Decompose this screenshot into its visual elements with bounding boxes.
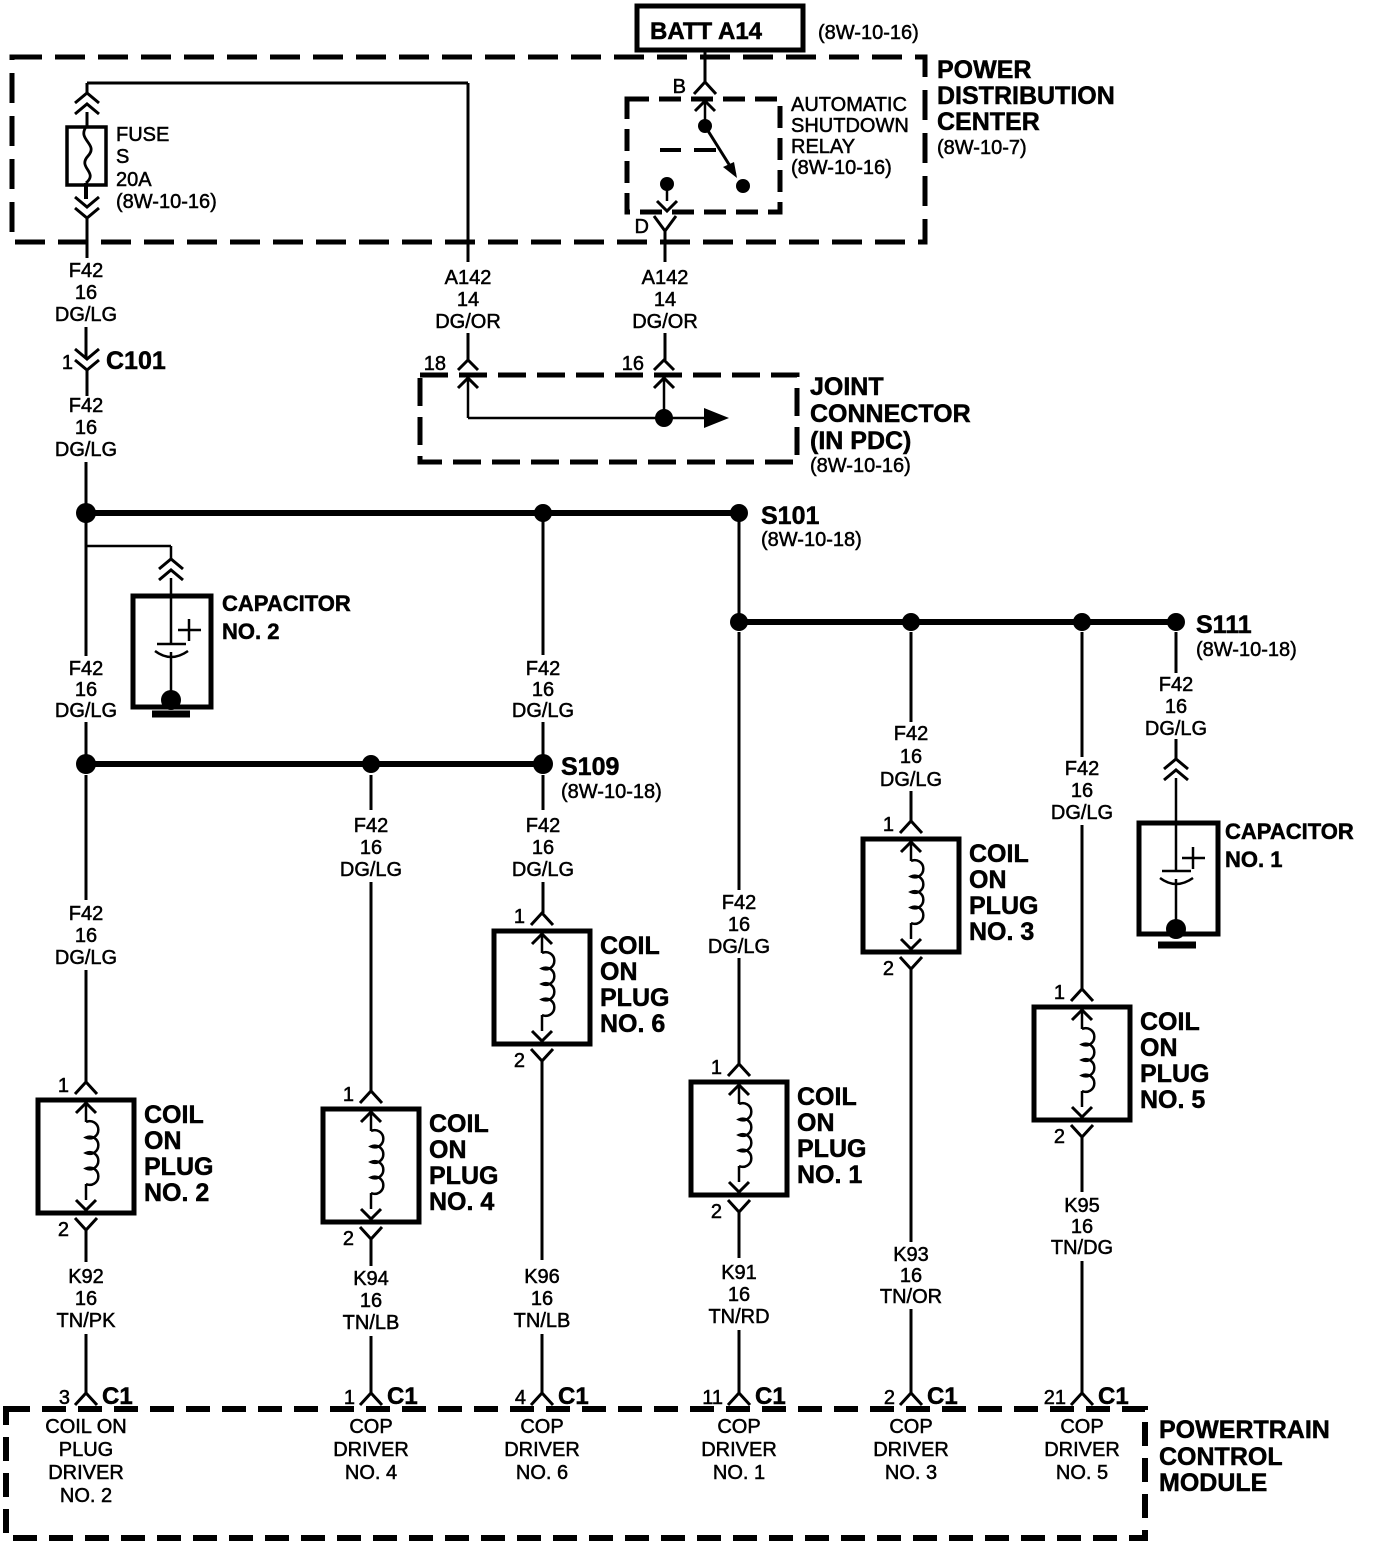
svg-text:CONTROL: CONTROL <box>1159 1443 1283 1471</box>
svg-text:NO. 1: NO. 1 <box>1225 847 1282 872</box>
coil on plug no 5 pin 1 connector <box>1054 982 1093 1004</box>
svg-text:14: 14 <box>457 289 479 311</box>
wire label A142 14 DG/OR right <box>632 267 698 333</box>
svg-text:1: 1 <box>711 1057 722 1079</box>
svg-text:14: 14 <box>654 289 676 311</box>
splice S109 bus <box>86 761 543 767</box>
coil on plug no 4 pin 1 connector <box>343 1084 382 1106</box>
coil on plug no 1 box <box>691 1082 787 1195</box>
svg-text:A142: A142 <box>642 267 689 289</box>
wire col6 S111 down <box>1081 632 1084 757</box>
wire to S101 <box>85 462 88 506</box>
svg-text:DG/LG: DG/LG <box>55 700 117 722</box>
svg-text:16: 16 <box>75 679 97 701</box>
svg-text:NO. 6: NO. 6 <box>516 1462 568 1484</box>
svg-text:COIL: COIL <box>969 840 1029 868</box>
connector pin D <box>635 216 676 238</box>
svg-text:1: 1 <box>1054 982 1065 1004</box>
svg-text:K95: K95 <box>1064 1195 1100 1217</box>
svg-text:S111: S111 <box>1196 611 1252 639</box>
connector C1 pin 21 cop driver no 5 <box>1044 1383 1129 1410</box>
svg-text:DG/LG: DG/LG <box>55 439 117 461</box>
connector C1 pin 4 cop driver no 6 <box>515 1383 589 1410</box>
svg-text:(IN PDC): (IN PDC) <box>810 427 911 455</box>
wire label F42 16 DG/LG col6 <box>1051 758 1113 824</box>
svg-text:K93: K93 <box>893 1244 929 1266</box>
svg-text:16: 16 <box>532 837 554 859</box>
splice S111 dots <box>730 613 1185 631</box>
capacitor C2 no 2 <box>133 596 211 707</box>
svg-text:COIL: COIL <box>429 1110 489 1138</box>
capacitor C1 no 1 <box>1139 823 1218 934</box>
svg-text:2: 2 <box>884 1387 895 1409</box>
svg-text:CENTER: CENTER <box>937 108 1040 136</box>
svg-text:DISTRIBUTION: DISTRIBUTION <box>937 82 1115 110</box>
wire col3 to PCM <box>541 1334 544 1393</box>
svg-text:RELAY: RELAY <box>791 136 855 158</box>
svg-text:1: 1 <box>344 1387 355 1409</box>
svg-text:COIL: COIL <box>797 1083 857 1111</box>
svg-text:2: 2 <box>883 958 894 980</box>
capacitor no 1 inline connector <box>1164 759 1188 780</box>
powertrain control module box <box>6 1409 1145 1538</box>
relay K1 automatic shutdown relay box <box>627 99 780 212</box>
svg-text:NO. 5: NO. 5 <box>1056 1462 1108 1484</box>
svg-text:PLUG: PLUG <box>969 892 1038 920</box>
wire col3 to coil no 6 <box>542 882 545 913</box>
svg-text:DRIVER: DRIVER <box>873 1439 949 1461</box>
wire col3 S109 down <box>542 775 545 810</box>
svg-text:PLUG: PLUG <box>1140 1060 1209 1088</box>
wire col1 S101 to S109 <box>85 513 88 656</box>
wire below C101 <box>86 370 89 396</box>
wire col6 to coil no 5 <box>1081 825 1084 989</box>
svg-text:2: 2 <box>1054 1126 1065 1148</box>
wire fuse to F42 label <box>86 218 89 258</box>
svg-text:DG/LG: DG/LG <box>55 304 117 326</box>
wire label K94 16 TN/LB <box>343 1268 400 1334</box>
svg-text:K94: K94 <box>353 1268 389 1290</box>
capacitor no 2 label <box>222 591 351 644</box>
wire label K96 16 TN/LB <box>514 1266 571 1332</box>
wire coil no 1 to K91 label <box>738 1212 741 1258</box>
splice S101 label <box>761 502 862 551</box>
svg-text:JOINT: JOINT <box>810 373 884 401</box>
wire label K92 16 TN/PK <box>57 1266 117 1332</box>
svg-text:2: 2 <box>58 1219 69 1241</box>
svg-text:C1: C1 <box>927 1383 958 1410</box>
svg-text:16: 16 <box>1071 1216 1093 1238</box>
coil on plug no 6 box <box>494 931 590 1044</box>
coil on plug no 1 label <box>797 1083 866 1189</box>
svg-text:(8W-10-16): (8W-10-16) <box>818 22 919 44</box>
wire branch to capacitor no 2 <box>86 546 171 559</box>
svg-text:16: 16 <box>75 417 97 439</box>
wire col6 to PCM <box>1081 1261 1084 1393</box>
splice S111 bus <box>739 619 1176 625</box>
fuse bottom inline connector <box>75 197 99 218</box>
svg-text:(8W-10-16): (8W-10-16) <box>810 455 911 477</box>
connector C1 pin 11 cop driver no 1 <box>702 1383 785 1410</box>
svg-text:NO. 2: NO. 2 <box>144 1179 209 1207</box>
coil on plug no 5 primary winding <box>1072 1010 1094 1117</box>
svg-text:F42: F42 <box>1159 674 1193 696</box>
svg-text:DG/LG: DG/LG <box>340 859 402 881</box>
connector C1 pin 2 cop driver no 3 <box>884 1383 958 1410</box>
splice S111 label <box>1196 611 1297 661</box>
svg-text:POWERTRAIN: POWERTRAIN <box>1159 1416 1330 1444</box>
svg-text:C101: C101 <box>106 347 166 375</box>
svg-text:NO. 1: NO. 1 <box>797 1161 862 1189</box>
svg-text:K96: K96 <box>524 1266 560 1288</box>
capacitor no 2 ground <box>152 690 190 714</box>
svg-text:NO. 4: NO. 4 <box>345 1462 397 1484</box>
wire coil no 6 to K96 label <box>541 1061 544 1260</box>
wire col1 S109 down <box>85 775 88 900</box>
wire label F42 16 DG/LG col3 a <box>512 658 574 722</box>
wire BATT A14 to relay pin B <box>704 48 707 82</box>
joint connector pin 18 <box>424 353 478 375</box>
svg-text:1: 1 <box>514 906 525 928</box>
svg-text:DG/LG: DG/LG <box>1145 718 1207 740</box>
capacitor no 2 inline connector <box>159 559 183 580</box>
capacitor no 1 label <box>1225 819 1354 872</box>
joint connector internal bus <box>468 417 664 420</box>
wire label F42 16 DG/LG col4 <box>708 892 770 958</box>
wire coil no 5 to K95 label <box>1081 1137 1084 1192</box>
svg-text:F42: F42 <box>894 723 928 745</box>
coil on plug no 5 pin 2 connector <box>1054 1125 1093 1148</box>
coil on plug no 6 label <box>600 932 669 1038</box>
svg-text:CONNECTOR: CONNECTOR <box>810 400 971 428</box>
wire connector to capacitor no 2 <box>170 578 173 596</box>
svg-text:16: 16 <box>360 837 382 859</box>
wire coil no 3 to K93 label <box>910 969 913 1242</box>
relay switch blade <box>705 126 750 193</box>
svg-text:ON: ON <box>969 866 1007 894</box>
svg-text:F42: F42 <box>722 892 756 914</box>
wire label K93 16 TN/OR <box>880 1244 942 1308</box>
joint connector junction <box>655 409 673 427</box>
svg-text:20A: 20A <box>116 169 152 191</box>
coil on plug no 3 label <box>969 840 1038 946</box>
coil on plug no 3 pin 2 connector <box>883 957 922 980</box>
svg-text:K91: K91 <box>721 1262 757 1284</box>
svg-text:(8W-10-18): (8W-10-18) <box>561 781 662 803</box>
svg-text:F42: F42 <box>69 395 103 417</box>
coil on plug no 6 primary winding <box>532 934 554 1041</box>
PCM coil on plug driver no 2 label <box>45 1416 127 1507</box>
svg-text:NO. 2: NO. 2 <box>222 619 279 644</box>
svg-text:TN/PK: TN/PK <box>57 1310 117 1332</box>
coil on plug no 2 pin 2 connector <box>58 1218 97 1241</box>
svg-text:A142: A142 <box>445 267 492 289</box>
coil on plug no 6 pin 2 connector <box>514 1049 553 1072</box>
relay common contact <box>698 119 712 133</box>
connector pin B <box>673 76 716 98</box>
wire col2 to PCM <box>370 1336 373 1393</box>
svg-text:16: 16 <box>728 914 750 936</box>
svg-text:DRIVER: DRIVER <box>701 1439 777 1461</box>
coil on plug no 3 box <box>863 839 959 952</box>
svg-text:PLUG: PLUG <box>600 984 669 1012</box>
splice S101 dots <box>76 503 748 523</box>
coil on plug no 1 primary winding <box>729 1085 751 1192</box>
splice S101 bus <box>86 510 739 516</box>
svg-text:POWER: POWER <box>937 56 1031 84</box>
svg-text:K92: K92 <box>68 1266 104 1288</box>
PCM cop driver no 1 label <box>701 1416 777 1484</box>
svg-text:16: 16 <box>75 1288 97 1310</box>
svg-text:16: 16 <box>1165 696 1187 718</box>
svg-text:2: 2 <box>343 1228 354 1250</box>
joint connector pin 16 <box>622 353 674 375</box>
relay pin B male contact arrow <box>695 101 715 121</box>
svg-text:COP: COP <box>889 1416 932 1438</box>
svg-text:CAPACITOR: CAPACITOR <box>222 591 351 616</box>
svg-text:C1: C1 <box>102 1383 133 1410</box>
fuse S 20A <box>67 127 106 185</box>
svg-text:F42: F42 <box>69 260 103 282</box>
powertrain control module label <box>1159 1416 1330 1497</box>
svg-text:COP: COP <box>1060 1416 1103 1438</box>
wire to C101 <box>85 327 88 359</box>
svg-text:TN/RD: TN/RD <box>708 1306 769 1328</box>
svg-text:C1: C1 <box>558 1383 589 1410</box>
wire col5 to PCM <box>910 1309 913 1393</box>
svg-text:CAPACITOR: CAPACITOR <box>1225 819 1354 844</box>
coil on plug no 5 label <box>1140 1008 1209 1114</box>
wire connector to capacitor no 1 <box>1175 778 1178 823</box>
svg-text:FUSE: FUSE <box>116 124 169 146</box>
svg-text:COIL: COIL <box>1140 1008 1200 1036</box>
wire col3 S101 to label <box>542 513 545 655</box>
svg-text:DG/OR: DG/OR <box>435 311 501 333</box>
svg-text:DG/OR: DG/OR <box>632 311 698 333</box>
svg-text:TN/LB: TN/LB <box>343 1312 400 1334</box>
wire down to joint connector pin 18 <box>467 83 470 262</box>
wire below fuse <box>84 183 88 199</box>
wire label F42 16 DG/LG col2 <box>340 815 402 881</box>
joint connector continuation arrow <box>664 408 729 428</box>
svg-text:21: 21 <box>1044 1387 1066 1409</box>
svg-text:2: 2 <box>711 1201 722 1223</box>
coil on plug no 2 primary winding <box>76 1103 98 1210</box>
relay label <box>791 94 909 179</box>
svg-text:NO. 6: NO. 6 <box>600 1010 665 1038</box>
svg-text:DG/LG: DG/LG <box>512 700 574 722</box>
coil on plug no 1 pin 1 connector <box>711 1057 750 1079</box>
svg-text:16: 16 <box>900 1265 922 1287</box>
svg-text:F42: F42 <box>1065 758 1099 780</box>
splice S109 label <box>561 753 662 803</box>
svg-text:COIL: COIL <box>600 932 660 960</box>
wire coil no 4 to K94 label <box>370 1239 373 1266</box>
PCM cop driver no 6 label <box>504 1416 580 1484</box>
wire label F42 16 DG/LG col7 <box>1145 674 1207 740</box>
svg-text:ON: ON <box>144 1127 182 1155</box>
fuse label <box>116 124 217 213</box>
coil on plug no 2 box <box>38 1100 134 1213</box>
svg-text:D: D <box>635 216 649 238</box>
svg-text:(8W-10-18): (8W-10-18) <box>761 529 862 551</box>
svg-text:PLUG: PLUG <box>144 1153 213 1181</box>
wire chevron to fuse <box>86 112 89 127</box>
svg-text:F42: F42 <box>526 658 560 680</box>
joint connector box <box>420 375 797 462</box>
wire A142 right lower <box>664 333 667 360</box>
wire label F42 16 DG/LG col5 <box>880 723 942 791</box>
svg-text:BATT A14: BATT A14 <box>650 18 763 45</box>
svg-text:COIL: COIL <box>144 1101 204 1129</box>
wire col2 S109 down <box>370 775 373 810</box>
svg-text:ON: ON <box>797 1109 835 1137</box>
svg-text:ON: ON <box>429 1136 467 1164</box>
svg-text:COP: COP <box>520 1416 563 1438</box>
wire A142 left lower <box>467 333 470 360</box>
joint connector label <box>810 373 971 477</box>
svg-text:DG/LG: DG/LG <box>708 936 770 958</box>
svg-text:NO. 5: NO. 5 <box>1140 1086 1205 1114</box>
coil on plug no 6 pin 1 connector <box>514 906 553 928</box>
svg-text:B: B <box>673 76 686 98</box>
svg-text:AUTOMATIC: AUTOMATIC <box>791 94 907 116</box>
relay output arrow to pin D <box>657 188 677 211</box>
coil on plug no 2 pin 1 connector <box>58 1075 97 1097</box>
svg-text:NO. 3: NO. 3 <box>885 1462 937 1484</box>
svg-text:NO. 1: NO. 1 <box>713 1462 765 1484</box>
wire PDC horizontal feed <box>87 82 468 85</box>
svg-text:COIL ON: COIL ON <box>45 1416 127 1438</box>
svg-text:ON: ON <box>1140 1034 1178 1062</box>
svg-text:F42: F42 <box>526 815 560 837</box>
node BATT A14 feed box <box>637 6 919 50</box>
coil on plug no 2 label <box>144 1101 213 1207</box>
wire col5 to coil no 3 <box>910 791 913 821</box>
svg-text:16: 16 <box>531 1288 553 1310</box>
fuse top inline connector <box>75 93 99 114</box>
svg-text:DRIVER: DRIVER <box>333 1439 409 1461</box>
power distribution center box <box>12 57 925 242</box>
svg-text:DRIVER: DRIVER <box>48 1462 124 1484</box>
svg-text:1: 1 <box>62 352 73 374</box>
svg-text:C1: C1 <box>387 1383 418 1410</box>
svg-text:1: 1 <box>343 1084 354 1106</box>
svg-text:ON: ON <box>600 958 638 986</box>
svg-text:16: 16 <box>728 1284 750 1306</box>
wire col3 to S109 <box>542 722 545 756</box>
svg-text:1: 1 <box>883 814 894 836</box>
coil on plug no 4 box <box>323 1109 419 1222</box>
svg-text:PLUG: PLUG <box>797 1135 866 1163</box>
svg-text:DRIVER: DRIVER <box>1044 1439 1120 1461</box>
svg-text:16: 16 <box>532 679 554 701</box>
coil on plug no 1 pin 2 connector <box>711 1200 750 1223</box>
svg-text:COP: COP <box>717 1416 760 1438</box>
svg-text:DG/LG: DG/LG <box>512 859 574 881</box>
svg-text:C1: C1 <box>755 1383 786 1410</box>
power distribution center label <box>937 56 1115 159</box>
wire label F42 16 DG/LG col1 b <box>55 395 117 461</box>
svg-text:F42: F42 <box>354 815 388 837</box>
svg-text:4: 4 <box>515 1387 526 1409</box>
svg-text:(8W-10-16): (8W-10-16) <box>791 157 892 179</box>
splice S109 dots <box>76 754 553 774</box>
svg-text:NO. 3: NO. 3 <box>969 918 1034 946</box>
coil on plug no 4 label <box>429 1110 498 1216</box>
PCM cop driver no 4 label <box>333 1416 409 1484</box>
svg-text:F42: F42 <box>69 658 103 680</box>
wire col1 to PCM <box>85 1334 88 1393</box>
connector C101 <box>62 347 166 375</box>
wire label F42 16 DG/LG col1 a <box>55 260 117 326</box>
connector C1 pin 3 coil on plug driver no 2 <box>59 1383 133 1410</box>
svg-text:TN/DG: TN/DG <box>1051 1237 1113 1259</box>
relay output contact <box>660 177 674 191</box>
wire col2 to coil no 4 <box>370 882 373 1091</box>
wire label K91 16 TN/RD <box>708 1262 769 1328</box>
svg-text:DG/LG: DG/LG <box>55 947 117 969</box>
wire label A142 14 DG/OR left <box>435 267 501 333</box>
coil on plug no 4 pin 2 connector <box>343 1227 382 1250</box>
svg-text:MODULE: MODULE <box>1159 1469 1267 1497</box>
svg-text:COP: COP <box>349 1416 392 1438</box>
wire col4 S101 to S111 <box>738 513 741 622</box>
wire label F42 16 DG/LG col3 b <box>512 815 574 881</box>
svg-text:1: 1 <box>58 1075 69 1097</box>
svg-text:TN/LB: TN/LB <box>514 1310 571 1332</box>
svg-text:(8W-10-18): (8W-10-18) <box>1196 639 1297 661</box>
svg-text:TN/OR: TN/OR <box>880 1286 942 1308</box>
svg-text:16: 16 <box>1071 780 1093 802</box>
wire col7 to connector <box>1175 739 1178 759</box>
wire col4 to PCM <box>738 1330 741 1393</box>
coil on plug no 4 primary winding <box>361 1112 383 1219</box>
relay coil divider dashes <box>660 148 716 152</box>
svg-text:DRIVER: DRIVER <box>504 1439 580 1461</box>
coil on plug no 3 pin 1 connector <box>883 814 922 836</box>
wire col5 S111 down <box>910 632 913 722</box>
PCM cop driver no 3 label <box>873 1416 949 1484</box>
wire col1 to S109 <box>85 722 88 756</box>
svg-text:F42: F42 <box>69 903 103 925</box>
wire coil no 2 to K92 label <box>85 1230 88 1262</box>
coil on plug no 5 box <box>1034 1007 1130 1120</box>
joint connector pin 18 male arrow <box>458 378 478 418</box>
svg-text:S101: S101 <box>761 502 819 530</box>
svg-text:16: 16 <box>360 1290 382 1312</box>
connector C1 pin 1 cop driver no 4 <box>344 1383 418 1410</box>
wire label F42 16 DG/LG col1 c <box>55 658 117 722</box>
wire relay D down <box>664 231 667 262</box>
wire col4 S111 down <box>738 632 741 890</box>
wire col4 to coil no 1 <box>738 958 741 1064</box>
svg-text:18: 18 <box>424 353 446 375</box>
svg-text:SHUTDOWN: SHUTDOWN <box>791 115 909 137</box>
wire col1 to coil no 2 <box>85 970 88 1082</box>
svg-text:NO. 2: NO. 2 <box>60 1485 112 1507</box>
svg-text:16: 16 <box>75 282 97 304</box>
svg-text:PLUG: PLUG <box>59 1439 113 1461</box>
wire label F42 16 DG/LG col1 d <box>55 903 117 969</box>
svg-text:16: 16 <box>622 353 644 375</box>
svg-text:DG/LG: DG/LG <box>1051 802 1113 824</box>
svg-text:16: 16 <box>75 925 97 947</box>
svg-text:C1: C1 <box>1098 1383 1129 1410</box>
capacitor no 1 ground <box>1158 919 1196 945</box>
svg-text:DG/LG: DG/LG <box>880 769 942 791</box>
svg-text:(8W-10-7): (8W-10-7) <box>937 137 1027 159</box>
